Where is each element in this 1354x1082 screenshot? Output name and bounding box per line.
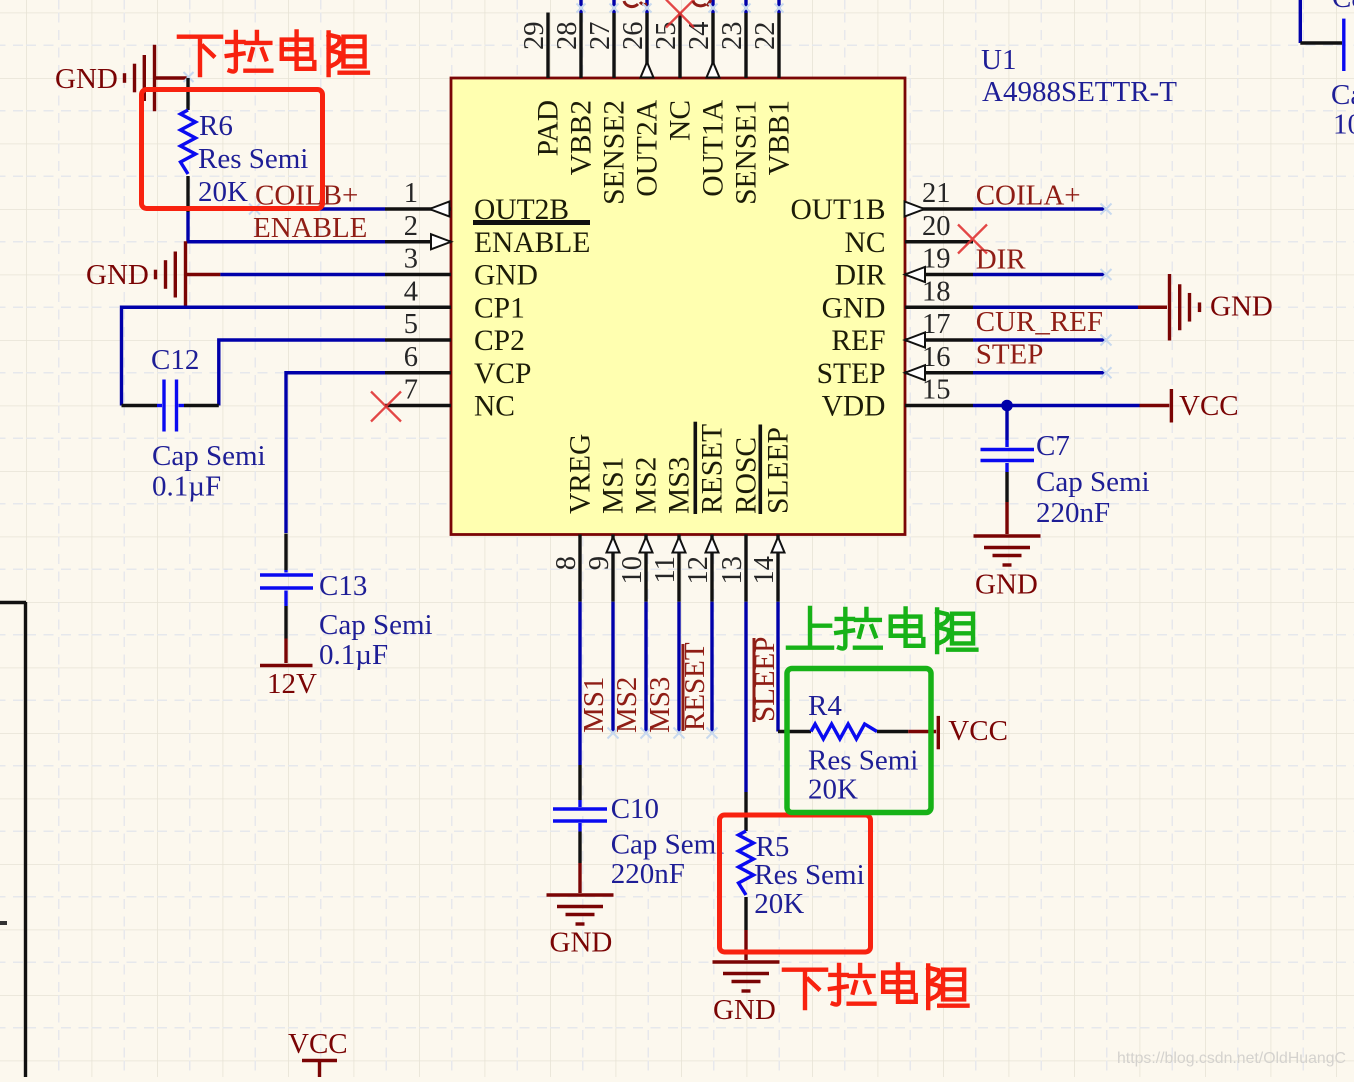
capacitor C13 top pin <box>284 534 287 571</box>
svg-text:SLEEP: SLEEP <box>763 427 795 514</box>
svg-text:27: 27 <box>585 22 616 51</box>
power port 12V stub <box>284 639 287 664</box>
svg-text:DIR: DIR <box>835 260 886 292</box>
wire <box>744 0 747 13</box>
pin 21 output arrow <box>905 202 925 217</box>
power port VCC bar <box>937 716 940 749</box>
svg-text:22: 22 <box>750 22 781 51</box>
svg-text:VBB1: VBB1 <box>764 100 796 175</box>
svg-text:7: 7 <box>404 375 418 406</box>
wire VDD to VCC <box>973 404 1140 407</box>
svg-text:C7: C7 <box>1036 430 1070 462</box>
svg-text:GND: GND <box>713 994 776 1026</box>
svg-text:24: 24 <box>684 22 715 51</box>
wire COILA+ <box>973 207 1106 210</box>
power port GND (below C10) <box>547 895 614 924</box>
sheet border <box>24 602 27 1077</box>
svg-text:18: 18 <box>922 276 951 307</box>
svg-text:ROSC: ROSC <box>731 437 763 514</box>
wire VCP to C13 <box>286 373 385 533</box>
pin 7 NC <box>385 404 451 407</box>
svg-text:MS3: MS3 <box>644 677 676 733</box>
svg-text:A4988SETTR-T: A4988SETTR-T <box>982 76 1177 108</box>
svg-text:ENABLE: ENABLE <box>474 227 590 259</box>
wire <box>612 0 615 13</box>
wire CP2 to C12 <box>219 340 385 406</box>
svg-text:26: 26 <box>618 22 649 51</box>
svg-text:NC: NC <box>665 100 697 141</box>
wire MS3 <box>677 602 680 733</box>
resistor R6 top pin <box>186 78 189 110</box>
wire DIR <box>973 273 1106 276</box>
svg-text:DIR: DIR <box>976 244 1027 276</box>
annotation red box around R6 <box>142 90 323 209</box>
GND stub wire <box>186 273 221 276</box>
wire GND to pin 3 <box>220 273 385 276</box>
pin 10 MS2 <box>644 535 647 602</box>
pin 16 STEP <box>905 371 973 374</box>
svg-text:VCC: VCC <box>288 1028 348 1060</box>
svg-text:21: 21 <box>922 178 951 209</box>
pin 12 RESET overline <box>694 422 698 514</box>
wire <box>579 0 582 13</box>
wire <box>777 0 780 13</box>
svg-text:8: 8 <box>551 556 582 570</box>
input arrow at pin x=613 <box>607 537 620 553</box>
net label COILB- fragment (cut off at top) <box>624 1 647 7</box>
wire COILB+ <box>255 207 386 210</box>
pin 14 SLEEP overline <box>759 425 763 515</box>
svg-text:23: 23 <box>717 22 748 51</box>
svg-text:13: 13 <box>717 556 748 585</box>
power port VCC stub <box>908 730 936 733</box>
resistor R5 bottom pin <box>744 897 747 930</box>
svg-text:Cap Semi: Cap Semi <box>319 609 433 641</box>
annotation green box around R4 <box>787 669 931 813</box>
op-amp U1 A4988SETTR-T component body <box>451 78 905 535</box>
input arrow at pin x=712 <box>706 537 719 553</box>
pin 9 MS1 <box>611 535 614 602</box>
capacitor C12 body <box>157 404 162 407</box>
wire <box>711 0 714 13</box>
wire CUR_REF <box>973 338 1106 341</box>
svg-text:CP2: CP2 <box>474 325 525 357</box>
input arrow at pin x=646 <box>640 537 653 553</box>
svg-text:PAD: PAD <box>533 100 565 156</box>
pin 23 SENSE1 <box>744 13 747 79</box>
pin 26 OUT2A <box>645 13 648 79</box>
pin 22 VBB1 <box>777 13 780 79</box>
svg-text:VDD: VDD <box>822 391 886 423</box>
svg-text:5: 5 <box>404 309 418 340</box>
svg-text:MS2: MS2 <box>631 457 663 514</box>
svg-text:GND: GND <box>822 292 886 324</box>
svg-text:VCC: VCC <box>1179 390 1239 422</box>
annotation text 下拉电阻 (bottom) <box>784 970 826 1008</box>
pin 21 OUT1B <box>905 207 973 210</box>
pin 26 output arrow <box>641 62 654 78</box>
power port GND stub <box>578 863 581 893</box>
wire CP1 to C12 <box>122 307 386 405</box>
pin 16 input arrow <box>905 365 925 380</box>
pin 11 MS3 <box>677 535 680 602</box>
pin 24 OUT1A <box>711 13 714 79</box>
capacitor C12 left pin <box>122 404 158 407</box>
svg-text:GND: GND <box>1210 291 1273 323</box>
pin 8 VREG <box>578 535 581 602</box>
svg-text:ENABLE: ENABLE <box>253 212 367 244</box>
pin 19 DIR <box>905 273 973 276</box>
svg-text:20: 20 <box>922 211 951 242</box>
resistor R6 body <box>181 110 196 174</box>
svg-text:U1: U1 <box>981 44 1016 76</box>
wire (top right, partial) <box>1299 0 1302 43</box>
capacitor plate (top right, cut) <box>1342 19 1345 71</box>
svg-text:Res Semi: Res Semi <box>754 859 864 891</box>
net label COILA- fragment (cut off at top) <box>693 0 711 6</box>
svg-text:C12: C12 <box>151 344 199 376</box>
svg-text:RESET: RESET <box>697 424 729 514</box>
pin 2 ENABLE <box>385 240 451 243</box>
pin 29 PAD <box>546 13 549 79</box>
pin 17 input arrow <box>905 333 925 348</box>
svg-text:SENSE1: SENSE1 <box>731 100 763 205</box>
svg-text:REF: REF <box>831 325 885 357</box>
wire ROSC <box>744 602 747 792</box>
capacitor C12 right pin <box>184 404 219 407</box>
pin 19 input arrow <box>905 267 925 282</box>
annotation text 下拉电阻 (top) <box>179 37 221 75</box>
wire GND (pin 18) <box>973 306 1138 309</box>
svg-text:19: 19 <box>922 244 951 275</box>
svg-text:20K: 20K <box>808 774 858 806</box>
svg-text:12: 12 <box>683 556 714 585</box>
pin 3 GND <box>385 273 451 276</box>
svg-text:28: 28 <box>552 22 583 51</box>
pin 13 ROSC <box>744 535 747 602</box>
pin 4 CP1 <box>385 306 451 309</box>
power port VCC stub <box>1140 404 1170 407</box>
svg-text:0.1µF: 0.1µF <box>319 639 388 671</box>
resistor R4 body <box>811 724 877 739</box>
pin 2 input arrow <box>431 234 451 249</box>
svg-text:GND: GND <box>975 569 1038 601</box>
svg-text:OUT2A: OUT2A <box>632 99 664 196</box>
svg-text:R4: R4 <box>808 690 842 722</box>
pin 14 SLEEP <box>776 535 779 602</box>
annotation red box around R5 <box>720 815 871 952</box>
svg-text:6: 6 <box>404 342 418 373</box>
power port VCC bar <box>1170 389 1173 423</box>
svg-text:VBB2: VBB2 <box>566 100 598 175</box>
svg-text:Res Semi: Res Semi <box>198 143 308 175</box>
pin 25 NC <box>678 13 681 79</box>
svg-text:20K: 20K <box>754 888 804 920</box>
wire endpoint marks on top wires <box>577 4 586 13</box>
svg-text:CP1: CP1 <box>474 292 525 324</box>
wire STEP <box>973 371 1106 374</box>
svg-text:COILA+: COILA+ <box>976 180 1081 212</box>
resistor R5 body <box>739 831 754 895</box>
pin 20 no-connect X <box>958 225 987 254</box>
power port GND (below C7) <box>974 536 1041 565</box>
svg-text:220nF: 220nF <box>1036 497 1110 529</box>
svg-text:GND: GND <box>474 260 538 292</box>
resistor R6 bottom pin <box>186 176 189 212</box>
svg-text:OUT1B: OUT1B <box>790 194 885 226</box>
wire SLEEP <box>776 602 779 732</box>
power port GND stub <box>1005 502 1008 534</box>
svg-text:C10: C10 <box>611 793 659 825</box>
wire R6 to ENABLE <box>188 212 385 242</box>
svg-text:VCC: VCC <box>948 715 1008 747</box>
svg-text:STEP: STEP <box>817 358 886 390</box>
pin 25 no-connect X <box>666 0 694 28</box>
pin 24 output arrow <box>707 62 720 78</box>
resistor R4 left pin <box>778 730 811 733</box>
wire MS2 <box>644 602 647 733</box>
pin 7 no-connect X <box>371 392 401 422</box>
svg-text:9: 9 <box>584 556 615 570</box>
svg-text:Cap Semi: Cap Semi <box>152 440 266 472</box>
input arrow at pin x=679 <box>673 537 686 553</box>
pin 17 REF <box>905 338 973 341</box>
svg-text:GND: GND <box>550 927 613 959</box>
svg-text:VCP: VCP <box>474 358 531 390</box>
svg-text:NC: NC <box>474 391 515 423</box>
svg-text:1: 1 <box>404 178 418 209</box>
capacitor C13 body <box>284 570 287 573</box>
wire RESET <box>710 602 713 733</box>
junction <box>1001 400 1013 412</box>
power port GND (pin 3) <box>156 241 186 307</box>
pin 2 ENABLE overline <box>473 220 590 225</box>
svg-text:SENSE2: SENSE2 <box>599 100 631 205</box>
svg-text:Cap Semi: Cap Semi <box>611 829 725 861</box>
wire <box>645 0 648 13</box>
pin 12 RESET <box>710 535 713 602</box>
svg-text:MS1: MS1 <box>578 677 610 733</box>
svg-text:12V: 12V <box>267 668 317 700</box>
svg-text:STEP: STEP <box>976 339 1044 371</box>
capacitor pin (top right) <box>1300 41 1342 44</box>
input arrow at pin x=778 <box>772 537 785 553</box>
resistor R5 top pin <box>744 792 747 831</box>
svg-text:GND: GND <box>86 259 149 291</box>
wire VREG down <box>578 602 581 765</box>
wire MS1 <box>611 602 614 733</box>
svg-text:3: 3 <box>404 244 418 275</box>
svg-text:11: 11 <box>650 556 681 583</box>
svg-text:0.1µF: 0.1µF <box>152 471 221 503</box>
svg-text:https://blog.csdn.net/OldHuang: https://blog.csdn.net/OldHuangC <box>1117 1050 1346 1067</box>
svg-text:Cap Semi: Cap Semi <box>1036 466 1150 498</box>
resistor R4 right pin <box>877 730 908 733</box>
svg-text:15: 15 <box>922 375 951 406</box>
pin 27 SENSE2 <box>612 13 615 79</box>
power port GND stub <box>1138 306 1167 309</box>
svg-text:14: 14 <box>749 556 780 585</box>
svg-text:R6: R6 <box>199 110 233 142</box>
svg-text:OUT1A: OUT1A <box>698 99 730 196</box>
capacitor C10 bottom pin <box>578 832 581 864</box>
pin 1 output arrow <box>430 202 450 217</box>
annotation text 上拉电阻 <box>788 608 832 648</box>
power port GND stub <box>744 930 747 960</box>
capacitor C7 body <box>1005 440 1008 447</box>
svg-text:20K: 20K <box>198 176 248 208</box>
svg-text:Res Semi: Res Semi <box>808 745 918 777</box>
svg-text:CUR_REF: CUR_REF <box>976 306 1103 338</box>
svg-text:10: 10 <box>617 556 648 585</box>
svg-text:16: 16 <box>922 342 951 373</box>
svg-text:Cap Semi: Cap Semi <box>1331 79 1354 111</box>
svg-text:29: 29 <box>519 22 550 51</box>
power port 12V bar <box>260 664 313 667</box>
pin 6 VCP <box>385 371 451 374</box>
svg-text:MS2: MS2 <box>611 677 643 733</box>
svg-text:220nF: 220nF <box>611 858 685 890</box>
power port GND (top left) <box>125 45 155 111</box>
svg-text:100nF: 100nF <box>1333 109 1354 141</box>
capacitor C7 bottom pin <box>1005 472 1008 502</box>
power port GND (right) <box>1170 274 1200 340</box>
svg-text:MS1: MS1 <box>598 457 630 514</box>
pin 1 OUT2B <box>385 207 451 210</box>
GND stub wire <box>156 76 189 79</box>
wire VDD junction down to C7 <box>1005 406 1008 441</box>
capacitor C13 bottom pin <box>284 606 287 639</box>
capacitor C10 top pin <box>578 765 581 800</box>
svg-text:17: 17 <box>922 309 951 340</box>
svg-text:VREG: VREG <box>565 434 597 514</box>
pin 20 NC <box>905 240 973 243</box>
pin 18 GND <box>905 306 973 309</box>
pin 15 VDD <box>905 404 973 407</box>
pin 5 CP2 <box>385 338 451 341</box>
capacitor C10 body <box>578 800 581 807</box>
power port GND (below R5) <box>713 962 780 991</box>
pin 28 VBB2 <box>579 13 582 79</box>
svg-text:2: 2 <box>404 211 418 242</box>
svg-text:GND: GND <box>55 63 118 95</box>
svg-text:4: 4 <box>404 276 418 307</box>
svg-text:C13: C13 <box>319 570 367 602</box>
svg-text:NC: NC <box>845 227 886 259</box>
svg-text:MS3: MS3 <box>664 457 696 514</box>
svg-text:C8: C8 <box>1332 0 1354 14</box>
